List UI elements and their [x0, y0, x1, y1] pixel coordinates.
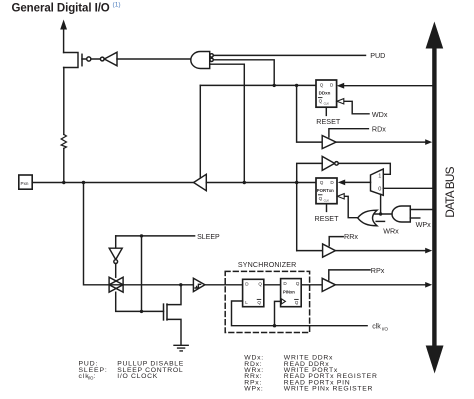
svg-text:RESET: RESET [316, 117, 341, 126]
synchronizer dashed box [225, 271, 309, 332]
node junction clk/PINxn-clock [273, 324, 276, 327]
svg-text:RPx: RPx [371, 266, 385, 275]
wire clk I/O [232, 301, 368, 326]
wire PORTxn clock from OR [344, 196, 358, 217]
schmitt trigger buffer [193, 278, 205, 291]
wire AND input 3 to pad line [210, 64, 245, 182]
wire inverter to transmission gate [115, 264, 117, 278]
wire pad line (left of driver) [32, 182, 193, 184]
wire WDx clock [344, 101, 370, 114]
wire data bus to DDxn D [344, 85, 433, 87]
wire clk to PINxn clock [275, 301, 281, 325]
tri-state buffer RRx [323, 244, 336, 257]
Vcc arrow [60, 20, 67, 30]
flip-flop PINxn [281, 279, 302, 307]
wire buffer to synchronizer [205, 284, 243, 286]
svg-text:Q: Q [258, 282, 262, 287]
wire FF1 to FF2 [264, 284, 281, 286]
resistor pull-up [63, 68, 65, 135]
node junction AND2-input/Q-line [273, 84, 276, 87]
svg-text:I/O: I/O [382, 327, 389, 333]
node junction PORTxn-Q/feedback [295, 181, 298, 184]
svg-text:Pxn: Pxn [21, 181, 29, 186]
AND gate pull-up enable (mirrored) [191, 52, 210, 69]
svg-text:I/O CLOCK: I/O CLOCK [117, 373, 158, 380]
svg-text:General Digital I/O: General Digital I/O [12, 3, 110, 15]
wire Q to RDx buffer [297, 85, 323, 142]
wire RDx control [329, 129, 369, 137]
svg-text:CLK: CLK [324, 101, 330, 105]
svg-text:SYNCHRONIZER: SYNCHRONIZER [238, 261, 297, 269]
wire mux input 0 from data bus [383, 187, 432, 189]
svg-text:RRx: RRx [344, 232, 358, 241]
wire WPx stub [410, 217, 420, 219]
wire AND input 2 to DDxn Q line [213, 60, 274, 86]
svg-text:WRITE PINx REGISTER: WRITE PINx REGISTER [284, 386, 373, 393]
wire inverter input from PORTxn Q [297, 163, 323, 250]
wire pad to transmission gate [84, 183, 194, 285]
svg-text:L: L [245, 300, 248, 305]
OR gate clock (mirrored) [358, 210, 377, 226]
svg-text:Q: Q [257, 300, 261, 305]
wire PORTxn Q to RRx buffer [297, 250, 323, 252]
wire PORTxn Q to driver input [206, 182, 316, 184]
node junction AND3-input/pad-line [243, 181, 246, 184]
node junction pin-line/NMOS-drain [179, 283, 182, 286]
wire driver enable from DDxn Q [199, 85, 201, 177]
wire WRx stub [376, 220, 384, 222]
wire AND output to inverter [117, 58, 191, 60]
mux 2:1 [371, 169, 384, 195]
svg-text:WPx: WPx [416, 220, 432, 229]
wire inverter output to mux input 1 [338, 163, 390, 174]
inverter U1 (drives pull-up gate) [100, 57, 104, 61]
svg-text:WPx:: WPx: [244, 386, 263, 393]
svg-text:Q: Q [320, 82, 324, 87]
svg-text:WDx: WDx [372, 110, 388, 119]
wire RPx output to data bus [335, 284, 426, 286]
svg-text:1: 1 [378, 173, 381, 179]
node junction Q/RDx [295, 84, 298, 87]
svg-text:DDxn: DDxn [319, 91, 331, 96]
latch sync FF1 [243, 279, 264, 306]
tri-state buffer RPx [322, 278, 335, 291]
wire Vcc to PMOS source [63, 28, 65, 53]
wire mux output to PORTxn D [345, 181, 371, 183]
wire RRx output to data bus [335, 250, 426, 252]
wire PINxn Q to RPx buffer [301, 284, 322, 286]
svg-text:PUD: PUD [370, 51, 385, 60]
transistor NMOS sleep pull-down [163, 304, 165, 320]
wire RDx output to data bus [336, 141, 426, 143]
wire DDxn Q line [200, 84, 316, 86]
svg-text:Q: Q [296, 281, 300, 286]
wire PORTxn reset [326, 204, 328, 212]
wire RPx control [329, 270, 370, 280]
wire DDxn reset [325, 107, 327, 115]
transmission gate [109, 277, 123, 292]
wire TG control to sleep net [116, 292, 164, 311]
svg-text:PORTxn: PORTxn [317, 188, 334, 193]
node junction resistor/pad [62, 181, 65, 184]
svg-text:Q: Q [320, 180, 324, 185]
wire SLEEP [116, 235, 195, 237]
svg-text:PINxn: PINxn [283, 289, 295, 294]
node junction SLEEP tap [140, 234, 143, 237]
svg-text:Q: Q [295, 300, 299, 305]
legend left [79, 361, 185, 381]
wire AND2 input from data bus [410, 209, 432, 211]
svg-text:clk: clk [372, 323, 381, 330]
svg-text:CLK: CLK [324, 199, 330, 203]
svg-text:RDx: RDx [372, 125, 386, 134]
pad box Pxn [19, 175, 32, 189]
svg-text:WRx: WRx [383, 226, 399, 235]
inverter toggle feedback [322, 156, 334, 170]
svg-text::: : [93, 373, 96, 380]
svg-text:Q: Q [319, 99, 323, 104]
svg-text:DATA BUS: DATA BUS [443, 166, 457, 217]
wire mux select [380, 194, 382, 214]
svg-text:Q: Q [319, 196, 323, 201]
title General Digital I/O [12, 2, 121, 15]
transistor pull-up PMOS [64, 53, 78, 68]
tri-state buffer RDx [322, 136, 336, 149]
svg-text:SLEEP: SLEEP [197, 234, 220, 241]
ground [174, 345, 188, 351]
flip-flop DDxn [316, 80, 337, 107]
node junction pad/sense [82, 181, 85, 184]
node junction SLEEP/NMOS-gate [140, 310, 143, 313]
flip-flop PORTxn [316, 178, 337, 204]
AND gate WPx (mirrored) [392, 206, 410, 222]
legend right [244, 355, 377, 393]
wire PUD [213, 54, 365, 56]
inverter sleep [109, 248, 122, 259]
tri-state output driver (points to pad) [194, 174, 207, 190]
node clk I/O label [372, 323, 388, 332]
svg-text:(1): (1) [113, 2, 121, 9]
svg-text:RESET: RESET [315, 214, 340, 223]
wire SLEEP to inverter [115, 236, 117, 248]
wire AND2 output to OR/mux select [375, 213, 392, 215]
svg-text:0: 0 [378, 187, 381, 193]
data bus [432, 40, 436, 352]
wire SLEEP to NMOS gate [141, 236, 143, 312]
wire RRx control [329, 237, 343, 246]
node junction mux-select/AND2-out/OR-in [379, 212, 382, 215]
